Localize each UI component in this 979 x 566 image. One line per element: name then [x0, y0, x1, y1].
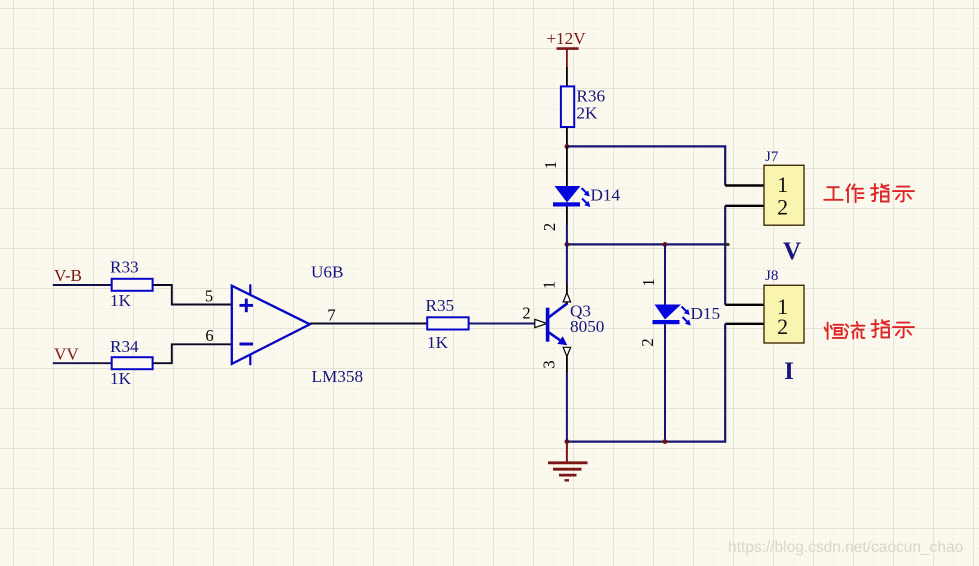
pin J8.2: [725, 323, 764, 325]
svg-text:1: 1: [777, 172, 788, 197]
pin J7.2: [725, 205, 764, 207]
node junction R36/D14/J7: [565, 144, 570, 149]
power port +12V: [546, 29, 586, 67]
op-amp U6B: [232, 284, 310, 365]
wire V-B to R33: [53, 284, 112, 286]
wire mid bus D14 to D15/J7 branch: [567, 243, 725, 245]
char 恒: [825, 323, 844, 339]
char 指: [871, 184, 889, 202]
svg-text:1K: 1K: [110, 291, 132, 310]
svg-text:+12V: +12V: [546, 29, 586, 48]
connector J7: [764, 149, 804, 225]
transistor Q3: [535, 281, 605, 369]
char 指: [872, 320, 890, 338]
node junction D15 top: [663, 242, 668, 247]
char 作: [846, 184, 863, 202]
wire J8.2 down to bottom bus: [567, 324, 725, 442]
char 流: [845, 322, 865, 339]
svg-text:2: 2: [540, 223, 559, 231]
svg-text:D15: D15: [691, 304, 721, 323]
wire R34 to op-amp pin6: [153, 344, 232, 363]
node junction mid bus at x725: [725, 243, 729, 246]
char 示: [893, 323, 914, 338]
svg-text:D14: D14: [591, 186, 621, 205]
LED D14: [540, 146, 621, 244]
connector J8: [764, 268, 804, 343]
svg-text:1: 1: [639, 278, 658, 286]
svg-text:8050: 8050: [570, 317, 604, 336]
char 工: [824, 187, 843, 200]
svg-text:2: 2: [522, 304, 530, 323]
svg-text:U6B: U6B: [311, 263, 343, 282]
pin J8.1: [725, 304, 764, 306]
resistor R35: [426, 296, 469, 352]
svg-text:R33: R33: [110, 258, 139, 277]
svg-text:2: 2: [638, 338, 657, 346]
svg-text:6: 6: [205, 326, 213, 345]
svg-text:5: 5: [205, 287, 213, 306]
wire R36 to junction: [566, 127, 568, 146]
svg-text:R34: R34: [110, 337, 139, 356]
wire R33 to op-amp pin5: [153, 285, 232, 305]
svg-text:2: 2: [777, 195, 788, 220]
svg-text:7: 7: [327, 306, 335, 325]
wire J7.2 down to mid bus and J8.1: [724, 206, 726, 305]
text 恒流指示 (red): [825, 320, 914, 339]
wire +12V to R36: [566, 67, 568, 86]
wire VV to R34: [53, 362, 112, 364]
svg-text:1K: 1K: [110, 369, 132, 388]
svg-text:I: I: [784, 358, 794, 385]
svg-text:LM358: LM358: [312, 367, 364, 386]
ground: [548, 442, 588, 481]
svg-text:V: V: [783, 238, 801, 265]
svg-text:1K: 1K: [427, 333, 449, 352]
char 示: [893, 187, 914, 202]
node junction D15 bottom: [663, 439, 668, 444]
wire Q3 emitter down: [566, 357, 568, 372]
node junction emitter/ground: [565, 439, 570, 444]
svg-text:1: 1: [540, 281, 559, 289]
svg-text:2K: 2K: [576, 104, 598, 123]
pin J7.1: [725, 184, 764, 186]
svg-text:J7: J7: [765, 149, 779, 165]
wire Q3 collector up: [566, 244, 568, 284]
resistor R34: [110, 337, 153, 388]
svg-text:V-B: V-B: [54, 266, 82, 285]
svg-text:https://blog.csdn.net/caocun_c: https://blog.csdn.net/caocun_chao: [728, 539, 963, 556]
wire top bus to J7: [567, 146, 725, 185]
resistor R36: [561, 86, 606, 127]
svg-text:3: 3: [540, 360, 559, 368]
svg-text:R35: R35: [426, 296, 455, 315]
svg-text:1: 1: [541, 161, 560, 169]
svg-text:VV: VV: [54, 345, 79, 364]
LED D15: [638, 244, 720, 441]
resistor R33: [110, 258, 153, 311]
wire op-amp out to R35: [310, 323, 427, 325]
text 工作指示 (red): [824, 184, 914, 202]
svg-text:2: 2: [777, 314, 788, 339]
wire R35 to Q3 base: [469, 323, 535, 325]
svg-text:J8: J8: [765, 268, 778, 284]
node junction D14 bottom: [565, 242, 570, 247]
